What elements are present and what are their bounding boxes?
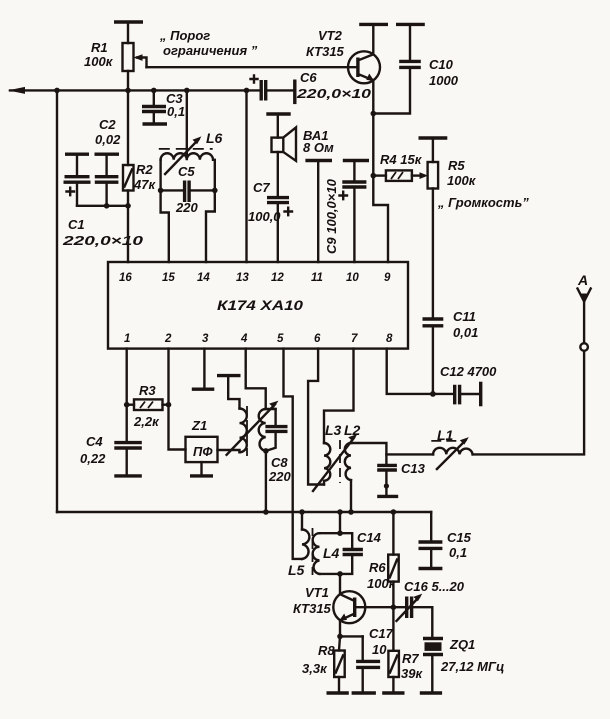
capacitor C13 [377,465,397,494]
node: C8 line on bottom bus [263,509,269,515]
chassis bar under C4 [114,474,142,477]
inductor L1 variable (3 arcs) [431,437,472,469]
svg-text:4: 4 [240,333,248,345]
wire: pin 4 down to T1 secondary / C8 [246,349,276,409]
wire: bottom common bus [57,511,431,513]
node: L5 feed on bottom bus [299,509,305,515]
capacitor C9 100.0x10 electrolytic [340,161,367,263]
svg-text:С14: С14 [357,530,382,545]
wire: R1 wiper to VT2 base [147,66,358,68]
capacitor C5 220 [161,181,215,203]
L3/L2 core dashed [339,440,341,483]
svg-text:3: 3 [202,333,209,345]
wire: L2 top to C13 [351,443,386,465]
trimmer capacitor C16 5...20 [397,594,433,621]
antenna A symbol [578,289,591,344]
svg-text:С10: С10 [429,57,454,72]
svg-text:КТ315: КТ315 [293,601,332,616]
node: C2 bottom [104,203,110,209]
chassis bar above C2 [95,152,120,155]
chassis bar under C3 [143,122,168,125]
wire: VT2 emitter lead down [373,80,388,262]
svg-text:VT1: VT1 [305,585,329,600]
svg-text:С5: С5 [178,164,195,179]
chassis bar under Z1 [190,474,213,477]
speaker BA1 8 Ohm [272,114,297,197]
svg-text:L6: L6 [206,130,223,146]
svg-text:С11: С11 [453,309,476,324]
power bar above R1 [114,20,143,23]
capacitor C17 10 [356,636,380,691]
svg-text:13: 13 [236,272,249,284]
resistor R3 2.2k [127,399,169,410]
svg-text:R7: R7 [402,651,419,666]
inductor L5 (2 arcs) [302,530,309,560]
svg-text:С15: С15 [447,530,472,545]
node: pin2/R3 junction [166,402,172,408]
svg-text:R2: R2 [136,162,153,177]
svg-text:0,22: 0,22 [80,451,106,466]
node: VT1 emitter junction [337,634,343,640]
node: left rail tap on bus [54,88,60,94]
svg-text:10: 10 [346,272,359,284]
wire: L4/C14 tank loop bottom [320,555,353,574]
svg-text:8: 8 [386,333,393,345]
wire: pin 2 down to Z1 [169,349,186,450]
svg-text:L5: L5 [288,562,305,578]
svg-text:VT2: VT2 [318,28,343,43]
T1 core dashed [246,406,248,456]
svg-text:R6: R6 [369,560,386,575]
svg-text:39к: 39к [401,666,423,681]
node: T1 secondary bottom / C8 [263,448,269,454]
chassis bar under C17 [352,691,376,694]
svg-text:12: 12 [271,272,284,284]
svg-text:100,0: 100,0 [248,209,281,224]
svg-text:11: 11 [311,272,323,284]
svg-text:С6: С6 [300,70,317,85]
node: below C13 [384,483,389,488]
svg-text:8 Ом: 8 Ом [303,140,334,155]
resistor R7 39k [388,607,399,691]
node: L4 riser on bottom bus [337,509,343,515]
node: tank left [158,188,164,194]
power bar above R5 [419,136,448,139]
inductor T1 secondary (3 arcs) [259,409,266,451]
svg-text:С7: С7 [253,180,270,195]
svg-text:L2: L2 [344,422,361,438]
node: L6 tap on bus [184,88,190,94]
wire: bus down to IC pin 13 [245,90,247,262]
wire: emitter to C17 [340,635,363,637]
IC U1 K174XA10 box [108,262,408,349]
wire: T1 primary top lead [228,376,239,409]
wire: VT2 collector lead [372,24,374,54]
power bar above VT2 collector [359,23,388,26]
svg-text:220,0×10: 220,0×10 [296,86,372,101]
svg-text:С1: С1 [68,217,85,232]
node: tank right [212,188,218,194]
capacitor C6 220.0x10 electrolytic coupling [251,76,295,101]
svg-text:С8: С8 [271,455,288,470]
capacitor C11 0.01 [423,319,444,394]
rail bar at C12 right [479,382,482,407]
node: L2 bottom on bottom bus [348,509,354,515]
chassis bar above pin11 wire [305,159,332,162]
node: R1 bottom on bus [125,88,131,94]
svg-text:С13: С13 [401,461,426,476]
chassis bar under pin 3 [192,388,215,391]
resistor R1 100k potentiometer [123,22,147,90]
inductor L6 variable, 4 humps [159,136,213,174]
inductor T1 primary (3 arcs) [240,409,247,453]
capacitor C14 [343,550,363,555]
antenna connector circle [580,343,588,351]
resistor R8 3.3k [334,636,345,691]
resistor R4 15k [373,170,428,181]
svg-text:3,3к: 3,3к [302,661,328,676]
svg-text:220: 220 [175,200,198,215]
svg-text:9: 9 [384,272,391,284]
svg-text:1: 1 [124,333,130,345]
svg-text:0,01: 0,01 [453,325,478,340]
wire: pin 5 down across bus to L5 [284,349,303,559]
inductor L3 (3 arcs) [324,443,330,485]
svg-text:0,1: 0,1 [167,104,185,119]
L5/L4 core dashed [312,528,314,576]
wire: pin 7 down to L3 top [324,349,354,443]
wire: VT1 base to trimmer [355,606,406,608]
wire: L2 bottom to bus [350,480,352,512]
capacitor C10 1000 [373,24,421,113]
svg-text:220: 220 [268,469,291,484]
wire: L4/C14 tank loop top [320,533,353,549]
capacitor C1 220.0x10 electrolytic [64,154,91,206]
svg-text:2,2к: 2,2к [133,414,160,429]
wire: C8 junction down to bottom bus [265,451,267,512]
svg-text:47к: 47к [133,177,156,192]
rail bar at C6 right [293,80,296,105]
wire: L6 tank left/right sides [161,160,169,262]
svg-text:ПФ: ПФ [193,444,213,459]
wire: C1/C2 bottoms to R2 line [77,205,128,207]
wire: T1 primary bottom to Z1 [218,450,240,452]
transistor VT1 KT315 [333,574,365,637]
resistor R5 100k potentiometer (volume) [428,138,439,319]
svg-text:А: А [577,272,588,288]
chassis bar under R8 [327,691,349,694]
node: pin1/R3/C4 junction [124,402,130,408]
wire: pin 11 to chassis bar [317,161,319,263]
node: tank bottom to VT1 collector [337,571,343,577]
svg-text:15: 15 [162,272,175,284]
svg-text:2: 2 [164,333,172,345]
chassis bar above C9 [343,159,369,162]
chassis bar under R7 [382,691,404,694]
wire: main top supply bus with left arrow [8,87,261,94]
wire: pin 1 down [125,349,127,442]
node: emitter/C10 junction [371,111,377,117]
resistor R2 47k [123,90,134,262]
svg-text:R5: R5 [448,158,465,173]
capacitor C4 0.22 [114,443,142,475]
wire: trimmer to ZQ1 [431,607,433,638]
svg-text:R3: R3 [139,383,156,398]
svg-text:ZQ1: ZQ1 [449,637,475,652]
svg-text:К174 ХА10: К174 ХА10 [217,297,303,313]
svg-text:L1: L1 [437,427,454,443]
L3/L2 tuning arrow [313,434,358,491]
wire: pin 6 down to L3 bottom [308,349,324,485]
wire: bus tap down to L6 coil [186,90,188,159]
svg-text:220,0×10: 220,0×10 [62,233,145,248]
capacitor C8 220 [265,409,287,451]
svg-text:100к: 100к [447,173,477,188]
svg-text:1000: 1000 [429,73,459,88]
svg-text:R4 15к: R4 15к [380,152,423,167]
wire: C13 line to L1 [386,453,433,455]
capacitor C3 0.1 [142,90,166,122]
svg-text:100к: 100к [84,54,114,69]
node: pin13 tap on bus [244,88,250,94]
svg-text:КТ315: КТ315 [306,44,345,59]
svg-text:С2: С2 [99,117,116,132]
capacitor C2 0.02 [95,154,119,206]
svg-text:5: 5 [277,333,284,345]
wire: L1 to antenna line [473,351,584,454]
svg-text:6: 6 [314,333,321,345]
svg-text:С12 4700: С12 4700 [440,364,497,379]
node: R2 bottom junction [125,203,131,209]
svg-text:27,12 МГц: 27,12 МГц [440,659,504,674]
wire: bus top feed of L5 [301,512,303,530]
capacitor C15 0.1 [419,512,443,567]
wire: pin 8 to C11/C12 junction [387,349,433,394]
wire: pin 3 down [203,349,205,388]
capacitor C12 4700 [433,385,480,405]
power bar above BA1 speaker [266,112,290,115]
svg-text:L4: L4 [323,545,340,561]
svg-text:100к: 100к [367,576,397,591]
svg-text:R1: R1 [91,40,108,55]
resistor R6 100k [388,512,399,607]
svg-text:14: 14 [197,272,210,284]
node: emitter/R4 junction [371,173,377,179]
T1 tuning arrow [227,401,279,455]
wire: riser tank to bus [339,512,341,533]
node: R6 top on bottom bus [391,509,397,515]
chassis bar under ZQ1 [420,691,442,694]
node: base/R6/R7 junction [391,604,397,610]
node: C3 tap [151,88,157,94]
svg-text:L3: L3 [325,422,342,438]
inductor L4 (3 arcs) [313,533,320,574]
filter Z1 PF [186,437,218,475]
quartz ZQ1 27.12 MHz [423,639,443,692]
capacitor C7 100.0 electrolytic [267,198,292,262]
svg-text:16: 16 [119,272,132,284]
inductor L2 (3 arcs) [345,443,351,480]
svg-text:R8: R8 [318,643,335,658]
svg-text:Z1: Z1 [191,418,207,433]
svg-text:„ Громкость”: „ Громкость” [437,195,529,210]
power bar above C10 [396,23,425,26]
svg-text:ограничения ”: ограничения ” [163,43,258,58]
node: pin8/C11/C12 junction [430,391,436,397]
svg-text:7: 7 [351,333,358,345]
svg-text:0,02: 0,02 [95,132,121,147]
node: tank top riser [337,530,343,536]
svg-text:„ Порог: „ Порог [159,28,210,43]
svg-text:10: 10 [372,642,387,657]
chassis bar above C1 [65,152,89,155]
chassis bar under C15 [419,567,443,570]
svg-text:С16 5...20: С16 5...20 [404,579,465,594]
svg-text:С17: С17 [369,626,394,641]
svg-text:С9 100,0×10: С9 100,0×10 [324,178,339,254]
chassis bar above transformer T1 [217,374,241,377]
wire: left vertical rail down to bottom bus [56,90,58,512]
transistor VT2 KT315 [348,51,380,83]
svg-text:С4: С4 [86,434,103,449]
svg-text:0,1: 0,1 [449,545,467,560]
chassis bar under C13 [377,495,398,498]
